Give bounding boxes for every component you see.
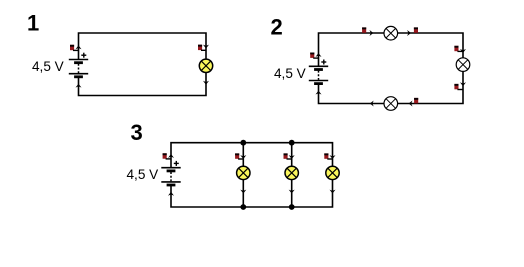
current arrow above B2 (up) <box>316 53 322 57</box>
wire: clip connector at B3 <box>166 158 172 160</box>
junction node: bottom of branch 2 <box>289 204 295 210</box>
battery B2 4,5 V <box>309 60 328 84</box>
lamp L2c (series, bottom) <box>384 97 398 111</box>
clip marker after lamp L2c <box>414 98 418 103</box>
wire: circuit 3 loop <box>171 143 333 207</box>
current arrow above L3a (down) <box>240 155 246 159</box>
current arrow above L3b (down) <box>289 155 295 159</box>
lamp L1 (lit) <box>199 59 212 72</box>
junction node: bottom of branch 1 <box>240 204 246 210</box>
wire: clip connector at B2 <box>313 57 319 59</box>
svg-text:1: 1 <box>27 11 39 36</box>
wire: clip connector at L3a <box>238 158 244 160</box>
clip marker at lamp L3c <box>324 153 328 158</box>
current arrow below L1 (down) <box>203 81 209 85</box>
clip marker at battery B3 <box>163 153 167 158</box>
wire: clip connector at B1 <box>73 49 79 51</box>
current arrow below L2b (down) <box>460 82 466 86</box>
svg-text:4,5 V: 4,5 V <box>274 66 306 81</box>
svg-text:2: 2 <box>271 14 283 39</box>
svg-text:4,5 V: 4,5 V <box>32 59 64 74</box>
svg-text:3: 3 <box>131 120 143 145</box>
lamp L3b (parallel, lit) <box>285 166 298 179</box>
current arrow before L2a (right) <box>370 30 374 36</box>
clip marker at lamp L3a <box>235 153 239 158</box>
clip marker after lamp L2a <box>414 27 418 32</box>
wire: clip connector at L3c <box>327 158 333 160</box>
lamp L3c (parallel, lit) <box>326 166 339 179</box>
junction node: top of branch 2 <box>289 140 295 146</box>
junction node: top of branch 1 <box>240 140 246 146</box>
clip marker below lamp L2b <box>454 84 458 89</box>
wire: circuit 2 loop <box>319 33 464 104</box>
battery B1 4,5 V <box>69 53 88 77</box>
clip marker above lamp L2b <box>454 46 458 51</box>
wire: clip connector below L2b <box>457 89 463 91</box>
lamp L2a (series, top) <box>384 26 398 40</box>
lamp L3a (parallel, lit) <box>237 166 250 179</box>
current arrow above L2b (down) <box>460 49 466 53</box>
current arrow below B3 (up) <box>168 192 174 196</box>
current arrow below B2 (up) <box>316 91 322 95</box>
wire: clip connector above L2b <box>457 50 463 52</box>
current arrow above B3 (up) <box>168 154 174 158</box>
wire: branch 2 (circuit 3) <box>291 143 293 207</box>
wire: clip connector at L3b <box>287 158 293 160</box>
battery B3 4,5 V <box>161 161 180 185</box>
wire: circuit 1 loop <box>79 33 207 96</box>
current arrow below L3b (down) <box>289 190 295 194</box>
clip marker before lamp L2a <box>362 27 366 32</box>
current arrow before lamp L2c (left) <box>370 101 374 107</box>
clip marker at lamp L1 <box>198 45 202 50</box>
clip marker at battery B2 <box>310 53 314 58</box>
current arrow after L2c (left) <box>409 101 413 107</box>
svg-text:4,5 V: 4,5 V <box>127 167 159 182</box>
current arrow above L3c (down) <box>330 155 336 159</box>
clip marker at lamp L3b <box>284 153 288 158</box>
current arrow above L1 (down) <box>203 45 209 49</box>
current arrow above B1 (up) <box>76 45 82 49</box>
current arrow below L3c (down) <box>330 190 336 194</box>
current arrow after L2a (right) <box>407 30 411 36</box>
current arrow below B1 (up) <box>76 84 82 88</box>
lamp L2b (series, right) <box>456 58 470 72</box>
wire: branch 1 (circuit 3) <box>242 143 244 207</box>
clip marker at battery B1 <box>70 45 74 50</box>
current arrow below L3a (down) <box>240 190 246 194</box>
wire: clip connector at L1 <box>201 49 207 51</box>
